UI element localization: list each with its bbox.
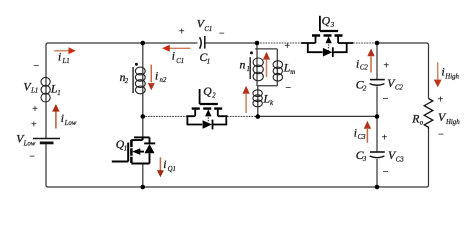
node E xyxy=(255,114,260,119)
current arrow i_n2 xyxy=(148,65,155,91)
svg-text:High: High xyxy=(445,119,460,126)
svg-text:i: i xyxy=(354,127,357,139)
svg-text:+: + xyxy=(437,95,443,106)
svg-text:−: − xyxy=(383,167,389,178)
node F xyxy=(375,114,380,119)
battery V_Low xyxy=(33,139,60,143)
capacitor C1 xyxy=(200,36,205,49)
svg-text:Low: Low xyxy=(23,141,36,148)
svg-text:Q: Q xyxy=(322,14,331,27)
transistor Q2 xyxy=(186,89,227,129)
wire Lm branch xyxy=(276,49,278,86)
node D xyxy=(141,114,146,119)
svg-text:C1: C1 xyxy=(204,26,212,33)
wire Lk branch xyxy=(257,86,259,117)
svg-text:i: i xyxy=(172,50,175,62)
wire n1 branch xyxy=(256,49,258,86)
wire n2 branch xyxy=(142,43,144,137)
wire top rail node C to top-right corner down to resistor xyxy=(377,43,429,99)
wire dotted Q2 to node E xyxy=(228,115,256,117)
node G xyxy=(141,185,146,190)
wire C2 branch upper xyxy=(376,43,378,80)
svg-text:1: 1 xyxy=(247,66,250,73)
svg-text:2: 2 xyxy=(363,86,367,93)
svg-text:Q: Q xyxy=(203,85,212,98)
svg-text:Low: Low xyxy=(64,120,77,127)
svg-text:C3: C3 xyxy=(358,134,367,141)
svg-text:−: − xyxy=(383,94,389,105)
current arrow i_Low xyxy=(52,104,60,129)
node B xyxy=(255,41,260,46)
node H xyxy=(375,185,380,190)
svg-text:L: L xyxy=(263,93,271,106)
wire Q1 source to bottom rail xyxy=(142,164,144,188)
svg-text:−: − xyxy=(438,129,444,140)
svg-text:C2: C2 xyxy=(360,65,369,72)
node A xyxy=(141,41,146,46)
current arrow i_High xyxy=(434,62,442,87)
svg-text:i: i xyxy=(163,159,166,171)
capacitor C3 xyxy=(370,152,385,158)
svg-text:m: m xyxy=(290,69,295,76)
current arrow i_C2 xyxy=(367,49,374,73)
svg-text:n: n xyxy=(240,58,246,71)
wire n1-Lm bottom bar xyxy=(257,85,277,87)
svg-text:+: + xyxy=(383,61,389,72)
wire C3 branch upper xyxy=(376,116,378,152)
svg-text:+: + xyxy=(284,41,290,52)
svg-text:n2: n2 xyxy=(160,77,167,84)
current arrow i_C3 xyxy=(364,121,371,143)
svg-text:3: 3 xyxy=(330,22,335,29)
resistor Ro xyxy=(424,99,433,130)
svg-text:i: i xyxy=(58,52,61,64)
svg-text:o: o xyxy=(420,120,424,127)
svg-text:2: 2 xyxy=(212,93,216,100)
inductor L1 xyxy=(41,77,50,102)
inductor Lk xyxy=(253,90,262,107)
svg-text:+: + xyxy=(382,133,388,144)
transistor Q3 xyxy=(301,16,353,57)
wire mid line node E to node F xyxy=(258,115,377,117)
wire n1-Lm top bar xyxy=(255,48,277,50)
wire top-left rail xyxy=(46,43,198,139)
wire dotted node D to Q2 xyxy=(146,115,187,117)
svg-text:1: 1 xyxy=(57,90,60,97)
current arrow i_L1 xyxy=(54,47,75,54)
wire dotted Q3 to node C xyxy=(354,42,375,44)
svg-text:C3: C3 xyxy=(396,157,405,164)
wire dotted node B to Q3 xyxy=(261,42,302,44)
svg-text:−: − xyxy=(29,152,35,163)
svg-text:3: 3 xyxy=(362,156,367,163)
current arrow i_C1 xyxy=(162,45,191,52)
winding n1 xyxy=(250,51,263,80)
node C xyxy=(375,41,380,46)
svg-text:i: i xyxy=(61,113,64,125)
wire C2 branch lower xyxy=(376,86,378,116)
svg-text:+: + xyxy=(31,120,37,131)
svg-text:i: i xyxy=(442,67,445,79)
capacitor C2 xyxy=(370,80,385,86)
svg-text:Q1: Q1 xyxy=(168,166,176,173)
current arrow in n1-Lm branch xyxy=(263,52,270,77)
svg-text:i: i xyxy=(356,58,359,70)
current arrow left of Lk xyxy=(243,86,250,113)
svg-text:2: 2 xyxy=(125,78,129,85)
svg-text:−: − xyxy=(219,29,225,40)
wire C3 branch lower xyxy=(376,159,378,187)
svg-text:i: i xyxy=(155,70,158,82)
svg-text:C1: C1 xyxy=(176,58,184,65)
wire node B down to split bar xyxy=(256,43,258,49)
winding n2 xyxy=(133,63,145,94)
current arrow i_Q1 xyxy=(157,157,164,177)
inductor Lm xyxy=(273,61,282,81)
transistor Q1 xyxy=(112,137,155,163)
svg-text:C2: C2 xyxy=(395,84,404,91)
svg-text:1: 1 xyxy=(207,59,210,66)
svg-text:−: − xyxy=(285,83,291,94)
wire top rail C1 to node B xyxy=(205,42,259,44)
svg-text:R: R xyxy=(411,113,419,126)
svg-text:1: 1 xyxy=(124,145,127,152)
svg-text:L: L xyxy=(283,62,291,75)
svg-text:−: − xyxy=(33,61,39,72)
wire battery to bottom-left corner and bottom rail xyxy=(46,129,429,187)
svg-text:High: High xyxy=(444,74,459,81)
svg-text:L1: L1 xyxy=(62,58,70,65)
svg-text:L1: L1 xyxy=(30,87,38,94)
svg-text:+: + xyxy=(32,104,38,115)
svg-text:+: + xyxy=(179,27,185,38)
